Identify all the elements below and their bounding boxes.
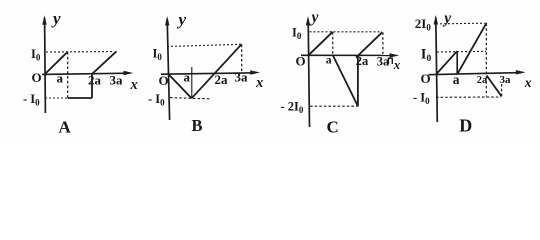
svg-text:3a: 3a — [235, 70, 249, 85]
dotted guide at I0 (D) — [437, 50, 486, 53]
dashed guide at -I0 (B) — [170, 98, 210, 99]
waveform C rising segment 2 — [356, 32, 382, 57]
svg-text:2a: 2a — [88, 72, 102, 87]
y-axis arrowhead B — [165, 16, 169, 26]
y-axis D — [436, 18, 438, 123]
dotted guide at I0 (B) — [167, 44, 241, 46]
waveform A rising segment 1 — [45, 52, 68, 74]
x-axis arrowhead D — [516, 70, 526, 74]
waveform A dashed vertical drop at a — [67, 52, 69, 98]
y-axis arrowhead A — [42, 15, 46, 24]
svg-text:a: a — [326, 54, 332, 66]
svg-text:I0: I0 — [421, 47, 432, 65]
svg-text:B: B — [192, 116, 203, 135]
dashed vertical at 2a (D) — [485, 24, 487, 97]
svg-text:y: y — [442, 10, 451, 27]
svg-text:A: A — [59, 118, 72, 137]
dotted guide at I0 (C) — [310, 31, 383, 33]
dotted guide at I0 (A) — [46, 51, 114, 53]
svg-text:3a: 3a — [110, 73, 124, 88]
dotted guide at -I0 (A) — [45, 97, 67, 99]
svg-text:- I0: - I0 — [148, 92, 165, 108]
y-axis B — [167, 19, 169, 120]
svg-text:x: x — [524, 75, 532, 90]
dotted guide at 2I0 (D) — [440, 22, 485, 25]
x-axis D — [429, 73, 522, 75]
waveform D vertical drop at a — [456, 51, 458, 74]
waveform A rising segment 2 — [92, 51, 117, 74]
svg-text:x: x — [393, 57, 401, 72]
waveform C descending segment — [333, 56, 358, 107]
small scan mark below axis near arrow (C) — [388, 58, 392, 64]
svg-text:O: O — [32, 70, 42, 85]
svg-text:- 2I0: - 2I0 — [281, 100, 304, 116]
waveform D steep rising segment 2 — [457, 23, 486, 75]
svg-text:I0: I0 — [31, 47, 41, 63]
y-axis arrowhead D — [434, 15, 438, 25]
dashed guide at -I0 (D) — [436, 96, 501, 98]
svg-text:a: a — [453, 72, 460, 87]
svg-text:O: O — [159, 73, 169, 88]
y-axis C — [308, 20, 309, 127]
x-axis arrowhead C — [390, 53, 400, 57]
waveform D rising segment 1 — [436, 51, 457, 74]
svg-text:- I0: - I0 — [413, 91, 430, 107]
svg-text:a: a — [184, 70, 191, 85]
x-axis arrowhead A — [124, 71, 134, 75]
svg-text:2I0: 2I0 — [415, 16, 432, 33]
waveform A solid bottom segment at -I0 — [68, 97, 92, 99]
svg-text:y: y — [177, 10, 187, 29]
dashed vertical at 3a (C) — [382, 32, 384, 55]
x-axis arrowhead B — [250, 70, 260, 74]
waveform A solid vertical rise at 2a — [91, 74, 93, 98]
svg-text:y: y — [310, 9, 319, 26]
svg-text:y: y — [51, 9, 61, 28]
dashed guide at -2I0 (C) — [310, 105, 358, 107]
waveform D descending segment below axis — [487, 76, 502, 97]
waveform B rising segment — [192, 44, 242, 98]
svg-text:- I0: - I0 — [23, 92, 40, 108]
svg-text:I0: I0 — [292, 26, 302, 42]
y-axis arrowhead C — [306, 16, 310, 26]
svg-text:a: a — [57, 71, 64, 86]
svg-text:D: D — [459, 115, 472, 135]
x-axis B — [161, 73, 256, 74]
x-axis A — [42, 73, 129, 74]
svg-text:C: C — [327, 118, 339, 137]
dashed vertical at a (C) — [332, 32, 334, 55]
svg-text:2a: 2a — [215, 72, 229, 87]
svg-text:x: x — [130, 77, 138, 93]
waveform C vertical rise at 2a — [357, 56, 359, 107]
svg-text:x: x — [255, 75, 263, 91]
waveform B descending segment — [168, 74, 191, 98]
dashed vertical at 3a (D) — [501, 84, 503, 97]
svg-text:O: O — [296, 54, 306, 69]
waveform C rising segment 1 — [308, 32, 332, 56]
waveform B vertical line at a — [191, 67, 193, 98]
x-axis C — [301, 54, 396, 56]
svg-text:O: O — [421, 71, 431, 86]
dashed vertical at 3a (B) — [241, 45, 243, 73]
y-axis A — [44, 18, 47, 113]
svg-text:I0: I0 — [153, 47, 163, 63]
